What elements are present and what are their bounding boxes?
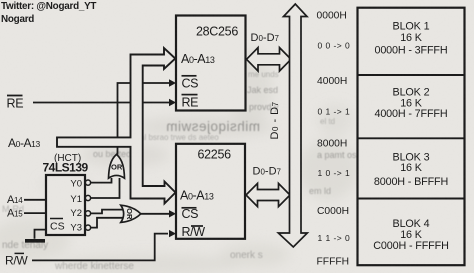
wire Y3 to OR2 input b — [91, 218, 123, 228]
divider block3/4 — [358, 198, 465, 200]
divider block1/2 — [358, 74, 465, 76]
inverter bubble Y3 — [85, 225, 90, 230]
inverter bubble Y1 — [85, 195, 90, 200]
pin CS enable — [50, 218, 63, 220]
net label R/W overline over W — [15, 252, 25, 254]
wire CS: OR1 output up then right to 28C256 CS — [118, 83, 172, 155]
pin R/W — [191, 225, 203, 227]
memory block 1 labels — [374, 21, 447, 57]
memory map outer box — [358, 8, 465, 266]
inverter bubble Y2 — [85, 211, 90, 216]
wire A14 input — [24, 199, 46, 201]
arrow into 62256 R/W — [169, 230, 176, 237]
arrow into 62256 CS — [169, 210, 176, 217]
address labels column — [317, 11, 350, 268]
wire OR2 output to 62256 CS — [141, 213, 171, 215]
memory block 3 labels — [374, 152, 448, 188]
pin RE — [182, 94, 198, 96]
inverter bubble Y0 — [85, 180, 90, 185]
OR gate U2 (to EEPROM CS, pointing up) — [109, 154, 125, 178]
pin CS — [182, 207, 197, 209]
wire RE horizontal to 28C256 — [33, 102, 171, 104]
arrow into 28C256 RE — [169, 99, 176, 106]
memory block 4 labels — [373, 218, 448, 252]
ground — [25, 239, 45, 243]
OR gate U3 (to RAM CS, pointing right) — [121, 205, 141, 222]
memory block 2 labels — [374, 87, 447, 121]
address bus A0-A13 (hollow, to both memories) — [57, 48, 176, 204]
pin CS — [182, 75, 197, 77]
scan grain overlay — [0, 0, 1, 1]
IC U5 74LS139 decoder — [43, 153, 91, 235]
wire R/W from bottom-left to 62256 — [32, 234, 168, 261]
wire RE label overline — [7, 95, 23, 97]
wire Y0 to OR1 input a — [91, 178, 112, 183]
data bus arrow 28C256 to main bus — [247, 48, 292, 71]
wire A15 input — [24, 212, 46, 214]
arrow into 28C256 CS — [169, 79, 176, 86]
IC U4 62256 SRAM — [176, 144, 245, 239]
IC U1 28C256 EEPROM — [176, 16, 246, 111]
wire Y2 to OR2 input a — [91, 210, 123, 214]
wire Y1 to OR1 input b — [91, 178, 120, 198]
data bus arrow 62256 to main bus — [246, 183, 290, 206]
main data bus vertical double arrow — [278, 4, 307, 247]
wire 74LS139 CS to ground — [35, 230, 47, 239]
divider block2/3 — [358, 137, 465, 139]
